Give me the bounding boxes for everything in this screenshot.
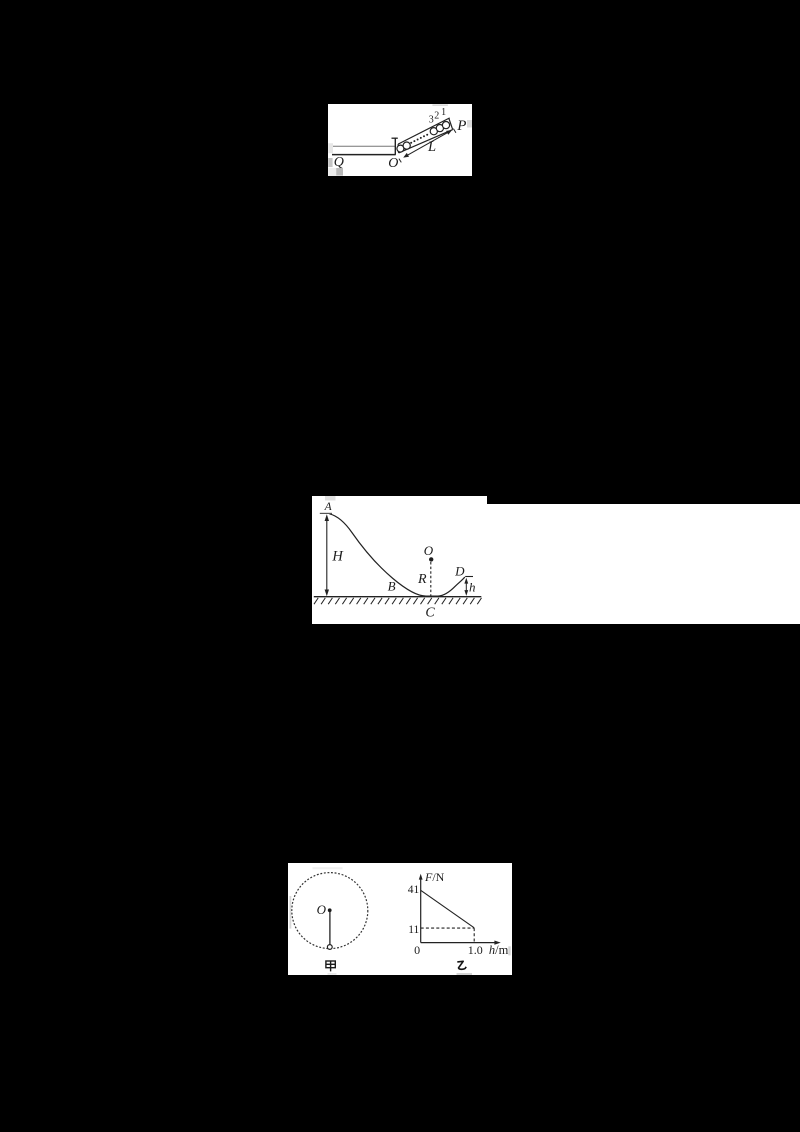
- svg-text:h: h: [469, 579, 476, 594]
- svg-text:O: O: [388, 156, 398, 171]
- svg-text:O: O: [317, 902, 327, 917]
- svg-text:O: O: [424, 543, 434, 558]
- svg-text:C: C: [425, 605, 435, 620]
- svg-text:Q: Q: [334, 155, 344, 170]
- svg-text:11: 11: [408, 924, 419, 936]
- svg-text:L: L: [427, 139, 436, 155]
- svg-text:41: 41: [408, 884, 420, 896]
- svg-text:0: 0: [414, 943, 420, 957]
- svg-text:2: 2: [434, 111, 439, 122]
- svg-text:D: D: [454, 563, 465, 578]
- svg-text:F/N: F/N: [424, 870, 445, 884]
- svg-text:H: H: [331, 549, 344, 565]
- svg-text:h/m: h/m: [489, 943, 509, 957]
- svg-text:3: 3: [429, 115, 434, 126]
- svg-text:A: A: [324, 501, 333, 513]
- svg-text:P: P: [456, 118, 466, 134]
- svg-text:1: 1: [441, 107, 446, 118]
- svg-text:R: R: [417, 572, 427, 587]
- svg-text:1.0: 1.0: [468, 943, 483, 957]
- svg-text:B: B: [388, 579, 396, 594]
